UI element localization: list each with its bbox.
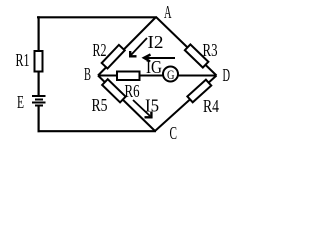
- resistor R4: [187, 80, 211, 103]
- wire B-C diagonal: [98, 76, 155, 132]
- galvanometer U1 G: [163, 67, 178, 82]
- wire bottom (corner to node C): [38, 130, 157, 132]
- resistor R5: [102, 79, 126, 102]
- svg-text:A: A: [164, 2, 172, 22]
- svg-text:R6: R6: [125, 81, 140, 101]
- svg-text:R4: R4: [203, 96, 219, 116]
- current arrow IG: [145, 57, 176, 59]
- svg-text:I5: I5: [145, 96, 159, 116]
- wire B-D bridge: [98, 75, 217, 77]
- wire left upper (corner to battery): [37, 16, 39, 95]
- svg-text:D: D: [223, 65, 231, 85]
- svg-text:B: B: [84, 64, 91, 84]
- svg-text:G: G: [167, 67, 175, 82]
- svg-text:C: C: [170, 123, 178, 143]
- resistor R1: [35, 51, 43, 72]
- svg-text:R1: R1: [16, 50, 30, 70]
- svg-text:R3: R3: [203, 40, 218, 60]
- wire top (corner to node A): [37, 16, 157, 18]
- battery E: [32, 96, 46, 106]
- wire D-C diagonal: [155, 76, 217, 132]
- current arrow I2: [131, 38, 147, 55]
- wire A-D diagonal: [156, 17, 217, 76]
- svg-text:IG: IG: [146, 57, 162, 77]
- svg-text:R5: R5: [92, 95, 108, 115]
- current arrow I5: [133, 100, 150, 116]
- svg-text:I2: I2: [148, 32, 164, 52]
- wire A-B diagonal: [98, 17, 156, 76]
- resistor R3: [185, 44, 209, 67]
- svg-text:R2: R2: [93, 40, 107, 60]
- wire left lower (battery to corner): [37, 106, 39, 132]
- resistor R6: [117, 72, 140, 81]
- svg-text:E: E: [17, 92, 24, 112]
- resistor R2: [102, 45, 125, 69]
